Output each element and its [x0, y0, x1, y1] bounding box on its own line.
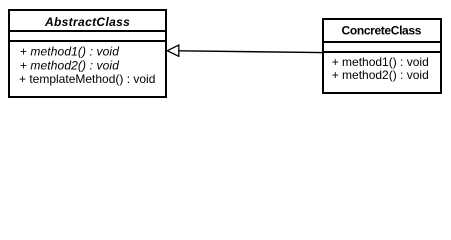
svg-text:AbstractClass: AbstractClass — [44, 15, 130, 29]
svg-text:+ templateMethod() : void: + templateMethod() : void — [19, 72, 155, 86]
class ConcreteClass: outer box — [323, 19, 441, 93]
inheritance connector: hollow triangle arrowhead pointing at AbstractClass — [167, 45, 179, 56]
svg-text:+ method1() : void: + method1() : void — [20, 45, 119, 59]
svg-text:+ method1() : void: + method1() : void — [332, 55, 429, 69]
class ConcreteClass: title/attribute separator — [322, 41, 441, 43]
class AbstractClass: outer box — [9, 10, 166, 97]
class AbstractClass: title/attribute separator — [8, 30, 167, 32]
class AbstractClass: attribute/method separator — [8, 40, 167, 42]
svg-text:+ method2() : void: + method2() : void — [20, 59, 119, 73]
inheritance connector: line from ConcreteClass to arrowhead — [179, 51, 322, 53]
class ConcreteClass: attribute/method separator — [322, 51, 441, 53]
svg-text:ConcreteClass: ConcreteClass — [342, 24, 422, 38]
svg-text:+ method2() : void: + method2() : void — [332, 68, 429, 82]
